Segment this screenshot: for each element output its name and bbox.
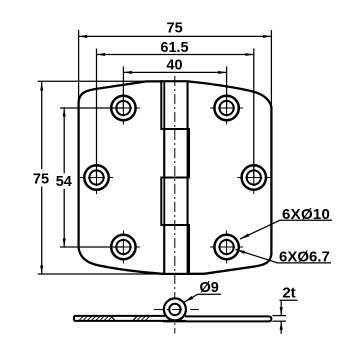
hole mid-left (84, 165, 108, 189)
dimension 75 top: dim line (79, 35, 272, 37)
dimension 2t: dim lines (280, 300, 282, 315)
knuckle seam line (163, 82, 165, 273)
leader D9 (184, 294, 221, 302)
side view right leaf (163, 316, 271, 321)
dimension 75 left: arrows (40, 82, 43, 91)
svg-text:75: 75 (33, 171, 49, 187)
hole bottom-right (214, 235, 238, 259)
svg-text:6XØ6.7: 6XØ6.7 (279, 248, 330, 265)
side view horizontal centerline (154, 309, 199, 311)
dimension 61.5: extension lines (97, 49, 254, 178)
dimension 75 top: extension lines (79, 30, 272, 106)
dimension 61.5: arrows (97, 53, 106, 56)
hinge plate outline (top view) (79, 81, 272, 273)
knuckle segment 1 (161, 81, 187, 129)
svg-text:6XØ10: 6XØ10 (282, 206, 330, 223)
svg-text:61.5: 61.5 (160, 40, 188, 56)
side view hatch band 1 (79, 316, 112, 320)
svg-text:2t: 2t (282, 285, 295, 302)
hole bottom-left (111, 235, 135, 259)
hole mid-right crosshair (237, 161, 270, 194)
hole bottom-left crosshair (107, 231, 140, 264)
knuckle seam line right (187, 82, 189, 273)
hole mid-left crosshair (80, 161, 113, 194)
knuckle segment 2 (164, 129, 189, 178)
dimension 75 left: dim line (broken for text) (41, 81, 43, 169)
dimension 40: arrows (123, 71, 131, 74)
dimension 2t: shoulder (280, 299, 298, 301)
dimension 2t: arrows (280, 307, 283, 316)
hole bottom-right crosshair (210, 231, 243, 264)
side view knuckle pin hole (169, 304, 180, 315)
hole top-left crosshair (107, 92, 140, 125)
dimension 54: dim line (broken for text) (63, 108, 65, 173)
dimension 2t: extension lines (273, 300, 298, 334)
dimension 54: extension lines (60, 108, 123, 247)
centerline vertical (through knuckle and side view) (174, 76, 176, 334)
dimension 40: extension lines (123, 67, 226, 109)
dimension 75 top: arrows (79, 35, 88, 38)
side view left leaf (sectioned) (74, 316, 186, 321)
dimension 61.5: dim line (97, 54, 254, 56)
dimension 54: arrows (63, 108, 66, 117)
leader 6X D6.7 (236, 250, 332, 263)
knuckle segment 3 (161, 178, 187, 226)
svg-text:75: 75 (167, 21, 183, 37)
dimension 40: dim line (123, 71, 226, 73)
knuckle segment 4 (164, 225, 189, 274)
hole top-right crosshair (210, 92, 243, 125)
side view knuckle outer circle (164, 298, 186, 320)
svg-text:40: 40 (166, 58, 182, 74)
hole top-right (214, 96, 238, 120)
hole top-left (111, 96, 135, 120)
svg-text:Ø9: Ø9 (200, 280, 219, 296)
leader 6X D10 (240, 220, 332, 239)
side view countersink slants (111, 316, 115, 321)
hole mid-right (242, 165, 266, 189)
side view hatch band 2 (137, 316, 149, 320)
dimension 75 left: extension lines (38, 81, 163, 274)
svg-text:54: 54 (56, 174, 72, 190)
